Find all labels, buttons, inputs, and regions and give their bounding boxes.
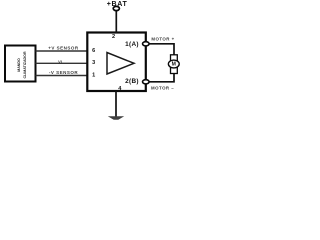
op-amp triangle <box>107 53 134 75</box>
svg-text:3: 3 <box>92 60 95 66</box>
ECU box U1 <box>87 33 146 92</box>
box MANDO CLIMATIZADOR <box>5 46 36 82</box>
terminal +BAT <box>113 6 119 10</box>
terminal 1(A) <box>143 42 150 46</box>
svg-text:6: 6 <box>92 48 95 54</box>
svg-text:MANDO: MANDO <box>17 58 21 72</box>
label MANDO CLIMATIZADOR <box>17 51 27 78</box>
svg-text:2(B): 2(B) <box>125 78 139 85</box>
svg-text:CLIMATIZADOR: CLIMATIZADOR <box>23 51 27 78</box>
svg-text:MOTOR +: MOTOR + <box>151 37 174 42</box>
wire -V sensor <box>36 75 88 77</box>
wire +BAT down <box>115 11 117 33</box>
wire motor - <box>146 74 174 82</box>
wire ground <box>115 91 117 117</box>
ground <box>108 116 124 119</box>
svg-text:VI: VI <box>58 59 62 64</box>
svg-text:-V SENSOR: -V SENSOR <box>49 70 79 75</box>
wire +V sensor <box>36 50 88 52</box>
terminal 2(B) <box>143 80 150 84</box>
motor M1 circle <box>168 60 179 68</box>
svg-text:M: M <box>172 62 176 68</box>
motor M1 body <box>171 55 178 74</box>
svg-text:1: 1 <box>92 73 95 79</box>
wire motor + <box>146 44 174 55</box>
wire VI <box>36 62 88 64</box>
svg-text:1(A): 1(A) <box>125 41 139 48</box>
svg-text:MOTOR –: MOTOR – <box>151 85 174 90</box>
svg-text:2: 2 <box>112 34 115 40</box>
svg-text:+V SENSOR: +V SENSOR <box>48 46 79 51</box>
